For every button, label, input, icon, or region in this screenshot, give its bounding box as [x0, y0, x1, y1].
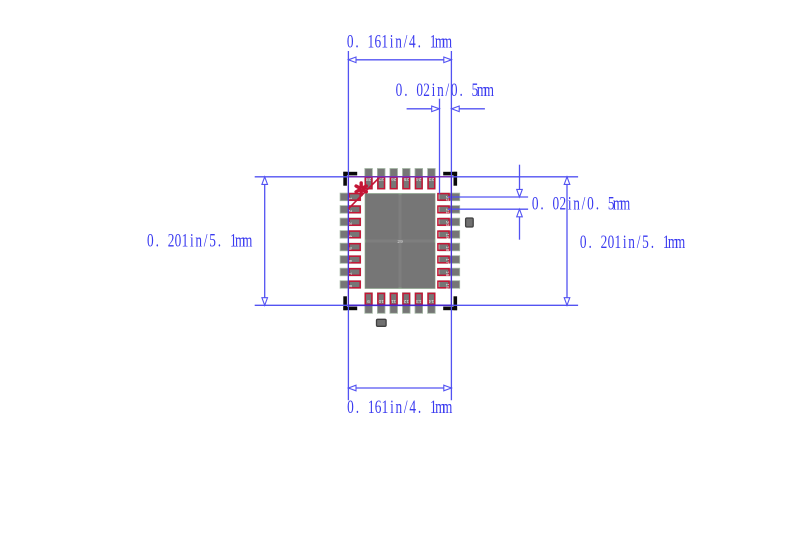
package corner mark bottom-left — [343, 307, 357, 311]
via/marker square right — [466, 218, 474, 227]
pad 6 (left) — [340, 256, 361, 264]
package outline right edge — [450, 177, 452, 305]
extension line right edge (x=451.4) — [450, 51, 452, 400]
pad 28 (top) — [365, 169, 373, 190]
pad 15 (right) — [438, 281, 460, 289]
pad 5 (left) — [340, 243, 361, 251]
svg-text:13: 13 — [416, 298, 422, 304]
pad 18 (right) — [438, 243, 460, 251]
pad 7 (left) — [340, 268, 361, 276]
pad 25 (top) — [403, 169, 411, 190]
pin 1 asterisk — [356, 183, 366, 195]
pad 12 (bottom) — [403, 293, 411, 314]
pad 23 (top) — [428, 169, 436, 190]
pad 27 (top) — [377, 169, 385, 190]
svg-text:18: 18 — [444, 246, 450, 252]
pad 3 (left) — [340, 218, 361, 226]
pad 2 (left) — [340, 206, 361, 214]
pad 26 (top) — [390, 169, 398, 190]
package corner mark bottom-right — [443, 307, 457, 311]
via/marker square bottom — [377, 319, 387, 326]
svg-text:20: 20 — [444, 221, 450, 227]
dimension left 0.201in/5.1mm — [264, 177, 266, 305]
dimension bottom 0.161in/4.1mm — [348, 387, 451, 389]
svg-text:11: 11 — [391, 298, 396, 304]
pad 9 (bottom) — [365, 293, 373, 314]
svg-text:19: 19 — [444, 233, 450, 239]
pad 10 (bottom) — [377, 293, 385, 314]
svg-text:12: 12 — [403, 298, 409, 304]
dimension top 0.02in/0.5mm pitch — [407, 108, 440, 110]
svg-text:10: 10 — [378, 298, 384, 304]
svg-text:9: 9 — [367, 298, 370, 304]
pad 16 (right) — [438, 268, 460, 276]
thermal pad 29 (exposed pad) — [365, 194, 435, 288]
pad 14 (bottom) — [428, 293, 436, 314]
dimension right 0.02in/0.5mm pitch — [519, 165, 521, 197]
pad 21 (right) — [438, 206, 460, 214]
svg-text:15: 15 — [444, 283, 450, 289]
dimension top 0.161in/4.1mm — [348, 59, 451, 61]
pad 8 (left) — [340, 281, 361, 289]
package outline left edge — [347, 177, 349, 305]
pad 19 (right) — [438, 231, 460, 239]
pad 17 (right) — [438, 256, 460, 264]
svg-text:17: 17 — [444, 258, 450, 264]
pad 20 (right) — [438, 218, 460, 226]
pad 11 (bottom) — [390, 293, 398, 314]
pad 13 (bottom) — [415, 293, 423, 314]
svg-text:14: 14 — [428, 298, 434, 304]
extension line top edge (y=176.8) — [255, 176, 578, 178]
svg-text:16: 16 — [444, 271, 450, 277]
extension line right pad 21 (y=209.2) — [448, 208, 528, 210]
pin 1 indicator line — [349, 178, 379, 209]
dimension right 0.201in/5.1mm — [566, 177, 568, 305]
svg-text:29: 29 — [397, 239, 403, 245]
pad 4 (left) — [340, 231, 361, 239]
package outline bottom edge — [348, 304, 451, 306]
pad 1 (left) — [340, 193, 361, 201]
package corner mark top-left — [343, 172, 357, 176]
extension line bottom edge (y=305.3) — [255, 304, 578, 306]
pad 24 (top) — [415, 169, 423, 190]
pad 22 (right) — [438, 193, 460, 201]
extension line right pad 22 (y=197) — [448, 196, 528, 198]
package corner mark top-right — [443, 172, 457, 176]
extension line left edge (x=348.4) — [347, 51, 349, 400]
package outline top edge — [348, 176, 451, 178]
extension line pad pitch (x=439.5) — [439, 99, 441, 194]
